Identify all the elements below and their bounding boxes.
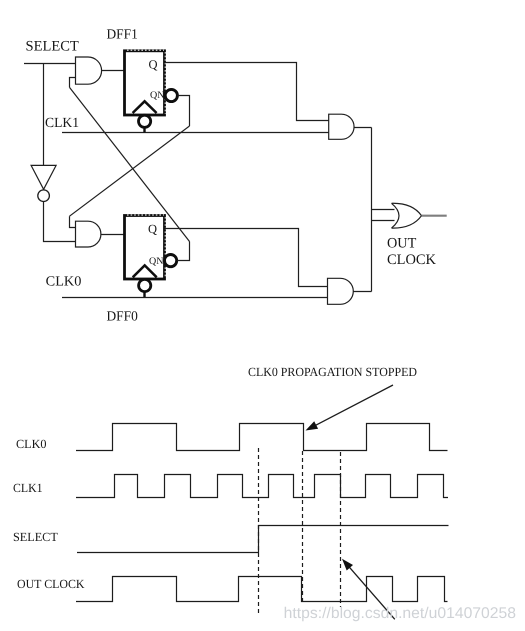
wire CLK0 net	[62, 297, 328, 299]
svg-text:CLK0: CLK0	[46, 275, 82, 290]
dashed marker line 3	[340, 452, 342, 607]
wire OR upper input stub	[372, 209, 395, 211]
svg-text:OUT CLOCK: OUT CLOCK	[17, 577, 85, 591]
and-gate G3 (Q1 & CLK1)	[329, 114, 354, 139]
clock bubble DFF1	[139, 115, 151, 127]
svg-text:CLK0: CLK0	[16, 437, 47, 451]
marching-ants dots right of DFF1	[164, 52, 166, 114]
wire G3 output	[354, 127, 371, 129]
svg-text:DFF0: DFF0	[107, 310, 138, 325]
svg-text:SELECT: SELECT	[26, 39, 79, 55]
clock triangle DFF0	[133, 265, 157, 277]
or-gate G5	[392, 203, 422, 228]
wire G1 output to DFF1 D	[102, 70, 125, 72]
inverter U1	[31, 165, 56, 189]
wire DFF1 clock stub	[143, 128, 145, 133]
wire diagonal DFF0.QN to G1	[70, 87, 190, 241]
wire diagonal DFF1.QN to G2	[70, 126, 190, 216]
and-gate G4 (Q0 & CLK0)	[328, 278, 354, 304]
clock bubble DFF0	[139, 279, 151, 291]
waveform CLK1	[76, 475, 448, 498]
wire DFF0.QN feedback	[177, 242, 190, 261]
bubble DFF0 QN	[165, 255, 177, 267]
wire G2 upper input notch	[70, 216, 76, 227]
and-gate G1 (SELECT & nQ0)	[76, 57, 102, 84]
wire bus to OR gate	[371, 128, 373, 292]
svg-text:CLK1: CLK1	[13, 481, 43, 495]
svg-text:Q: Q	[149, 58, 158, 72]
wire G2 output to DFF0 D	[101, 234, 125, 236]
wire G1 lower input notch	[70, 78, 76, 88]
marching-ants dots top of DFF0	[127, 214, 164, 216]
inverter bubble	[38, 190, 50, 202]
clock triangle DFF1	[133, 101, 157, 113]
arrow annotation to CLK0 edge	[313, 385, 394, 427]
marching-ants dots right of DFF0	[164, 217, 166, 278]
wire CLK1 net	[62, 132, 329, 134]
svg-text:QN: QN	[150, 90, 164, 101]
wire SELECT branch down to inverter	[43, 64, 45, 166]
bubble DFF1 QN	[165, 89, 177, 101]
wire DFF0 clock stub	[143, 292, 145, 298]
and-gate G2 (nSELECT & nQ1)	[76, 221, 101, 247]
wire OR lower input stub	[372, 220, 395, 222]
marching-ants dots top of DFF1	[127, 49, 164, 51]
dashed marker line 2	[302, 451, 304, 601]
wire OUT CLOCK output	[422, 215, 447, 217]
wire DFF1.QN feedback	[177, 96, 189, 127]
svg-text:CLOCK: CLOCK	[387, 252, 437, 268]
svg-text:CLK1: CLK1	[45, 116, 79, 131]
svg-text:DFF1: DFF1	[107, 28, 138, 43]
dashed marker line 1	[258, 448, 260, 613]
wire SELECT input	[24, 63, 76, 65]
waveform SELECT	[77, 526, 449, 553]
wire G4 output	[353, 291, 371, 293]
svg-text:https://blog.csdn.net/u0140702: https://blog.csdn.net/u014070258	[284, 605, 516, 622]
flip-flop DFF1 box	[125, 51, 165, 115]
wire DFF0.Q to G4	[165, 229, 328, 287]
wire inverter out to G2	[44, 202, 76, 242]
arrow annotation to OUT CLOCK switch	[348, 565, 395, 619]
wire DFF1.Q to G3	[165, 63, 329, 121]
waveform OUT CLOCK	[76, 577, 448, 602]
svg-text:SELECT: SELECT	[13, 530, 58, 544]
svg-text:Q: Q	[148, 222, 157, 236]
waveform CLK0	[76, 424, 448, 451]
svg-text:CLK0 PROPAGATION STOPPED: CLK0 PROPAGATION STOPPED	[248, 365, 417, 379]
svg-text:QN: QN	[149, 256, 163, 267]
flip-flop DFF0 box	[125, 216, 165, 280]
svg-text:OUT: OUT	[387, 235, 416, 251]
